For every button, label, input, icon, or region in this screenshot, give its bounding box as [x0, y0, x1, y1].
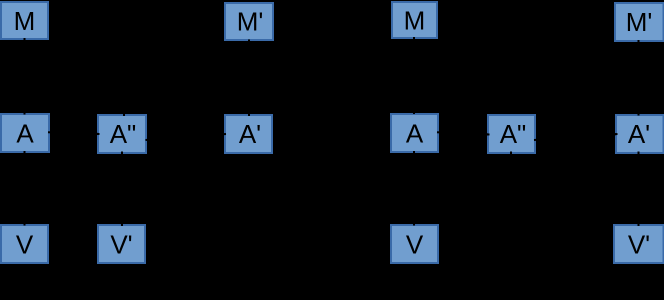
svg-text:V': V' [110, 230, 132, 260]
node A (right group) [391, 114, 438, 152]
node A'' (right group) [488, 115, 535, 153]
node M' (left group) [225, 3, 273, 40]
node V' (left group) [98, 225, 145, 263]
wire A->A'' (right) [437, 132, 490, 134]
wire M'->A' (right) [638, 40, 640, 116]
wire into A'' top (left) [123, 106, 125, 116]
svg-text:M': M' [237, 7, 264, 37]
wire A''->V' (left) [121, 152, 123, 227]
node V (left group) [1, 225, 48, 263]
node M' (right group) [615, 3, 664, 41]
wire A''->A' (right) [534, 134, 618, 140]
node M (left group) [1, 2, 48, 39]
node A (left group) [1, 114, 49, 152]
node A' (left group) [225, 115, 272, 153]
svg-text:A: A [16, 119, 34, 149]
svg-text:A': A' [239, 119, 261, 149]
svg-text:V: V [16, 230, 34, 260]
node A' (right group) [616, 115, 664, 153]
wire M->A (left) [24, 38, 26, 115]
node V' (right group) [614, 225, 664, 263]
wire A->V (left) [24, 151, 26, 226]
svg-text:A": A" [110, 119, 137, 149]
svg-text:M: M [14, 6, 36, 36]
svg-text:M': M' [626, 7, 653, 37]
node V (right group) [391, 225, 438, 263]
svg-text:V: V [406, 230, 424, 260]
wire A->A'' (left) [48, 132, 100, 134]
svg-text:V': V' [628, 230, 650, 260]
svg-text:A: A [406, 119, 424, 149]
wire A'->V' (right) [638, 152, 640, 227]
svg-text:A': A' [628, 119, 650, 149]
svg-text:A": A" [500, 119, 527, 149]
wire from A'' bottom (right) [510, 152, 512, 159]
node A'' (left group) [98, 115, 146, 153]
node M (right group) [392, 2, 437, 38]
wire M'->A' (left) [248, 40, 250, 117]
wire A''->A' (left) [146, 134, 227, 140]
wire A->V (right) [413, 151, 415, 226]
wire M->A (right) [413, 37, 415, 114]
svg-text:M: M [404, 6, 426, 36]
